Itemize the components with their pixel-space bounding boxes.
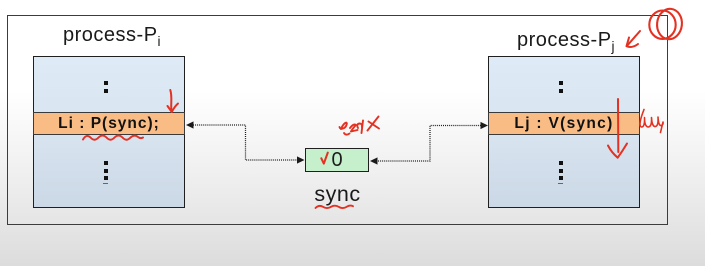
process Pj box [488, 56, 640, 208]
process-Pj title [517, 29, 615, 54]
colon Pj [559, 81, 563, 85]
red check in sync box [321, 153, 328, 164]
red double circle at frame corner [649, 11, 675, 39]
red squiggle under Li text [83, 136, 143, 140]
right connector dotted wire [376, 126, 481, 162]
right connector arrowhead into sync box [370, 157, 378, 164]
sync label [305, 182, 370, 207]
left connector dotted wire [193, 125, 298, 160]
red squiggle under sync [316, 206, 354, 208]
red loops scribble right of Lj band [640, 110, 663, 133]
left connector arrowhead into band [186, 121, 194, 128]
colon Pi [104, 81, 108, 85]
band Lj [488, 112, 640, 135]
process-Pi title [63, 24, 161, 49]
red arrow down-left at Pj title [627, 31, 640, 46]
right connector arrowhead into band [481, 122, 489, 129]
ellipsis Pj [559, 161, 563, 165]
left connector arrowhead into sync box [297, 156, 305, 163]
process Pi box [33, 56, 185, 208]
ellipsis Pi [104, 161, 108, 165]
band Li [33, 112, 185, 135]
sync box [305, 148, 369, 172]
red vertical arrow through Lj band [617, 99, 619, 152]
red arrow down at Li band [170, 90, 171, 111]
outer frame [7, 15, 668, 225]
red handwriting e24x scribble [340, 123, 347, 129]
